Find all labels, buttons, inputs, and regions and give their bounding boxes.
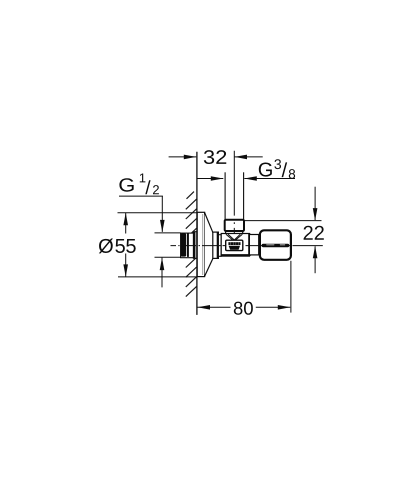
inlet pipe white base (181, 233, 197, 258)
handle slot (262, 244, 290, 247)
pipe dark thin bar (187, 233, 189, 257)
dimension 22 (244, 220, 321, 222)
outlet tube lines (224, 172, 226, 219)
handle (260, 230, 291, 259)
GROHE badge (226, 240, 243, 250)
escutcheon cone (205, 213, 213, 277)
pipe dark band at wall (193, 232, 195, 259)
wall face line (196, 152, 198, 315)
dimension G3/8 (197, 178, 295, 180)
escutcheon disc (197, 212, 204, 276)
escutcheon neck (218, 235, 221, 257)
nut lower collar lines (225, 231, 227, 234)
inlet pipe thread section at wall (193, 232, 197, 259)
dimension 32 (169, 156, 263, 158)
badge dark bowl (229, 246, 240, 250)
funnel chamfer lines (226, 234, 233, 240)
dimension G1/2 (119, 173, 159, 194)
valve body (221, 234, 249, 257)
G1/2 extension lines (155, 232, 181, 234)
horizontal centerline (171, 245, 323, 247)
wall hatching (186, 192, 197, 297)
pipe dark band left (181, 233, 187, 256)
bonnet (249, 235, 259, 255)
dimension 80 (290, 261, 292, 313)
vertical centerline (233, 151, 235, 234)
escutcheon ring (213, 232, 219, 258)
dimension D55 (118, 212, 198, 214)
compression nut (225, 220, 244, 231)
